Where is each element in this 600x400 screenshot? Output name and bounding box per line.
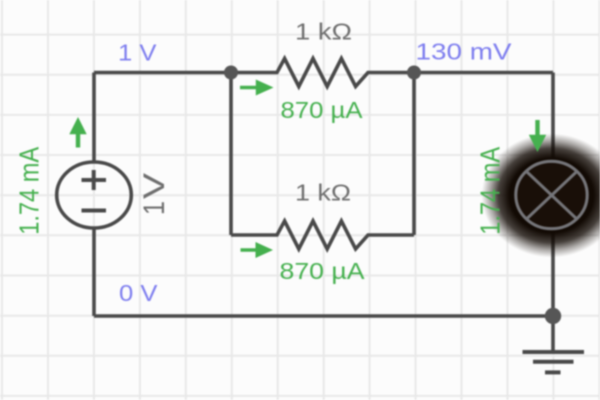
- svg-text:V: V: [137, 173, 171, 199]
- svg-text:0 V: 0 V: [119, 280, 158, 306]
- svg-text:1 V: 1 V: [118, 40, 157, 66]
- svg-text:1.74 mA: 1.74 mA: [15, 147, 45, 235]
- svg-text:870 µA: 870 µA: [280, 258, 366, 284]
- svg-text:1 kΩ: 1 kΩ: [295, 19, 352, 45]
- svg-text:1 kΩ: 1 kΩ: [295, 180, 351, 206]
- svg-text:870 µA: 870 µA: [281, 97, 364, 123]
- svg-text:1: 1: [137, 201, 171, 215]
- svg-text:130 mV: 130 mV: [416, 39, 513, 65]
- svg-text:1.74 mA: 1.74 mA: [476, 147, 506, 235]
